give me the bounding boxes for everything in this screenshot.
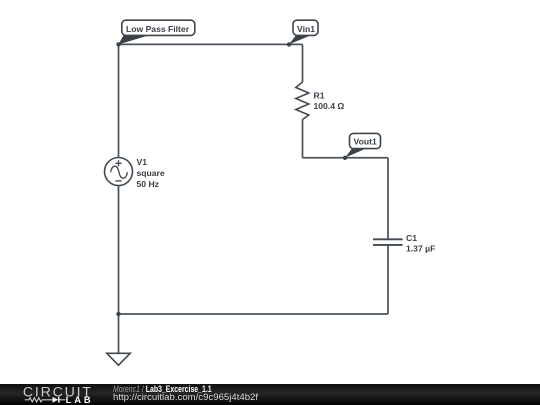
wire: Vout horizontal rail [303,157,389,159]
svg-text:square: square [137,168,165,178]
CircuitLab logo [0,384,100,405]
node dot: bottom junction [116,312,120,316]
wire: right branch from Vin corner down to R1 top [302,44,304,82]
voltage source V1 [105,158,133,186]
wire: bottom rail [119,313,389,315]
wire: left rail top (corner down to V1 source) [118,44,120,157]
capacitor C1 [373,239,403,245]
svg-text:50 Hz: 50 Hz [137,179,159,189]
label flag: Low Pass Filter [119,20,195,44]
value label R1 100.4 Ohm [314,90,345,111]
value label V1 square 50 Hz [137,157,165,189]
svg-text:C1: C1 [406,233,417,243]
wire: ground stem [118,314,120,353]
wire: C1 bottom plate down to bottom rail [387,245,389,314]
svg-text:LAB: LAB [66,394,94,405]
svg-text:R1: R1 [314,90,325,100]
svg-text:100.4 Ω: 100.4 Ω [314,101,345,111]
svg-text:Vout1: Vout1 [354,137,377,147]
svg-text:Low Pass Filter: Low Pass Filter [126,24,190,34]
label flag: Vin1 [289,20,318,44]
wire: left rail bottom (V1 source down to bottom junction) [118,185,120,314]
value label C1 1.37 uF [406,233,435,254]
svg-text:Vin1: Vin1 [297,24,315,34]
svg-text:V1: V1 [137,157,148,167]
node dot: Vout1 node [343,156,347,160]
ground [107,353,130,365]
wire: top rail from Low Pass Filter node to Vin corner [119,43,303,45]
wire: R1 bottom down to Vout rail [302,120,304,158]
node dot: Low Pass Filter node [116,42,120,46]
wire: right rail from Vout corner down to C1 top plate [387,158,389,240]
node dot: Vin1 node [287,42,291,46]
resistor R1 [296,82,309,120]
label flag: Vout1 [345,133,381,157]
footer title text [113,385,212,395]
svg-text:1.37 µF: 1.37 µF [406,243,435,253]
